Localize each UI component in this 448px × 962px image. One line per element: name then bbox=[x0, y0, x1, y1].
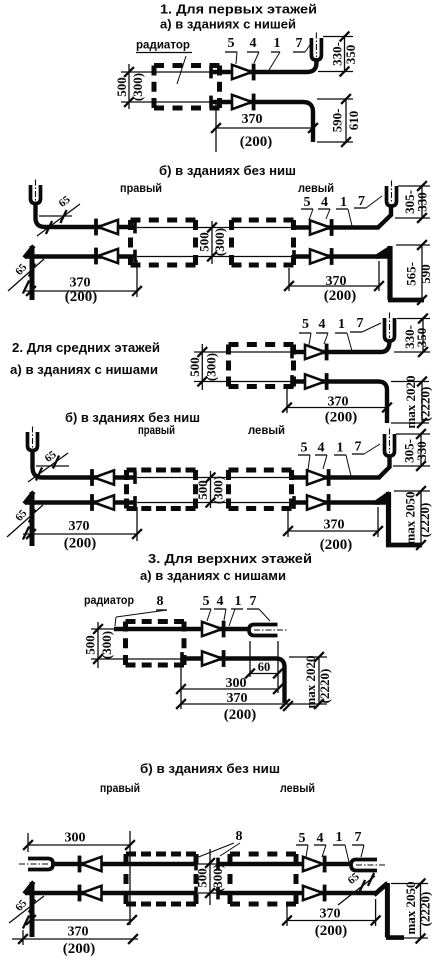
svg-text:4: 4 bbox=[319, 317, 326, 332]
svg-text:5: 5 bbox=[299, 831, 306, 846]
svg-text:правый: правый bbox=[100, 782, 140, 795]
svg-text:4: 4 bbox=[317, 831, 324, 846]
svg-text:7: 7 bbox=[355, 440, 362, 455]
svg-text:1: 1 bbox=[340, 195, 347, 210]
svg-text:370: 370 bbox=[227, 691, 248, 706]
svg-text:(200): (200) bbox=[325, 410, 358, 426]
svg-text:(2220): (2220) bbox=[417, 892, 432, 927]
svg-text:4: 4 bbox=[217, 594, 224, 609]
svg-text:1: 1 bbox=[274, 36, 281, 51]
svg-text:(200): (200) bbox=[324, 288, 357, 304]
svg-text:левый: левый bbox=[248, 424, 285, 437]
svg-text:350: 350 bbox=[343, 45, 358, 65]
svg-text:б) в зданиях без ниш: б) в зданиях без ниш bbox=[140, 761, 280, 776]
svg-text:7: 7 bbox=[358, 194, 365, 209]
svg-text:(200): (200) bbox=[65, 289, 98, 305]
svg-text:370: 370 bbox=[328, 395, 349, 410]
svg-text:левый: левый bbox=[280, 782, 315, 795]
svg-text:(300): (300) bbox=[99, 631, 114, 659]
svg-text:370: 370 bbox=[326, 274, 347, 289]
svg-text:500: 500 bbox=[196, 232, 211, 252]
svg-text:300: 300 bbox=[65, 831, 86, 846]
svg-text:565-: 565- bbox=[403, 262, 418, 286]
svg-text:а) в зданиях с нишей: а) в зданиях с нишей bbox=[160, 17, 296, 32]
svg-text:(200): (200) bbox=[224, 707, 257, 723]
svg-text:3. Для верхних этажей: 3. Для верхних этажей bbox=[148, 551, 312, 566]
svg-text:max 2020: max 2020 bbox=[303, 655, 318, 708]
svg-text:(300): (300) bbox=[212, 228, 227, 256]
svg-text:(300): (300) bbox=[210, 864, 225, 892]
svg-text:(200): (200) bbox=[63, 941, 96, 957]
svg-text:590: 590 bbox=[418, 264, 433, 284]
svg-text:5: 5 bbox=[302, 317, 309, 332]
svg-text:330: 330 bbox=[414, 192, 429, 212]
svg-text:а) в зданиях с нишами: а) в зданиях с нишами bbox=[140, 568, 286, 583]
svg-text:370: 370 bbox=[320, 907, 341, 922]
svg-text:500: 500 bbox=[82, 635, 97, 655]
svg-text:(2220): (2220) bbox=[417, 503, 432, 538]
svg-text:(300): (300) bbox=[210, 476, 225, 504]
svg-text:радиатор: радиатор bbox=[84, 594, 134, 607]
svg-text:1: 1 bbox=[338, 317, 345, 332]
svg-text:500: 500 bbox=[114, 77, 129, 97]
svg-text:(300): (300) bbox=[203, 353, 218, 381]
svg-text:7: 7 bbox=[296, 36, 303, 51]
svg-text:370: 370 bbox=[68, 925, 89, 940]
svg-text:590-: 590- bbox=[329, 109, 344, 133]
svg-text:max 2020: max 2020 bbox=[403, 375, 418, 428]
svg-text:7: 7 bbox=[357, 316, 364, 331]
svg-text:610: 610 bbox=[346, 111, 361, 131]
svg-text:max 2050: max 2050 bbox=[402, 491, 417, 544]
svg-text:(2220): (2220) bbox=[417, 387, 432, 422]
svg-text:(200): (200) bbox=[64, 536, 97, 552]
svg-text:5: 5 bbox=[301, 441, 308, 456]
svg-text:радиатор: радиатор bbox=[136, 39, 190, 52]
svg-text:350: 350 bbox=[414, 328, 429, 348]
svg-text:330: 330 bbox=[414, 441, 429, 461]
svg-text:а) в зданиях с нишами: а) в зданиях с нишами bbox=[10, 362, 158, 377]
svg-text:(2220): (2220) bbox=[317, 669, 332, 704]
svg-text:1: 1 bbox=[336, 830, 343, 845]
svg-text:7: 7 bbox=[355, 830, 362, 845]
svg-text:300: 300 bbox=[226, 676, 247, 691]
svg-text:б) в зданиях без ниш: б) в зданиях без ниш bbox=[65, 410, 200, 425]
svg-text:(200): (200) bbox=[315, 923, 348, 939]
svg-text:(300): (300) bbox=[130, 73, 145, 101]
svg-text:370: 370 bbox=[324, 518, 345, 533]
svg-text:370: 370 bbox=[242, 112, 263, 127]
svg-text:правый: правый bbox=[138, 424, 175, 437]
svg-text:4: 4 bbox=[318, 441, 325, 456]
svg-text:б) в зданиях без ниш: б) в зданиях без ниш bbox=[159, 163, 296, 178]
svg-text:8: 8 bbox=[236, 829, 243, 844]
svg-text:(200): (200) bbox=[240, 134, 273, 150]
svg-text:7: 7 bbox=[250, 594, 257, 609]
svg-text:левый: левый bbox=[298, 182, 334, 195]
svg-text:1: 1 bbox=[235, 594, 242, 609]
svg-text:5: 5 bbox=[228, 36, 235, 51]
svg-text:8: 8 bbox=[157, 594, 164, 609]
svg-text:1. Для первых этажей: 1. Для первых этажей bbox=[160, 2, 317, 17]
svg-text:(200): (200) bbox=[320, 537, 353, 553]
svg-text:370: 370 bbox=[69, 519, 90, 534]
svg-text:1: 1 bbox=[337, 441, 344, 456]
svg-text:4: 4 bbox=[321, 195, 328, 210]
svg-text:2. Для средних этажей: 2. Для средних этажей bbox=[12, 340, 160, 355]
svg-text:4: 4 bbox=[250, 36, 257, 51]
svg-text:5: 5 bbox=[203, 594, 210, 609]
svg-text:правый: правый bbox=[120, 182, 162, 195]
svg-text:60: 60 bbox=[258, 660, 271, 674]
svg-text:max 2050: max 2050 bbox=[403, 881, 418, 934]
svg-text:500: 500 bbox=[187, 357, 202, 377]
svg-text:5: 5 bbox=[304, 195, 311, 210]
